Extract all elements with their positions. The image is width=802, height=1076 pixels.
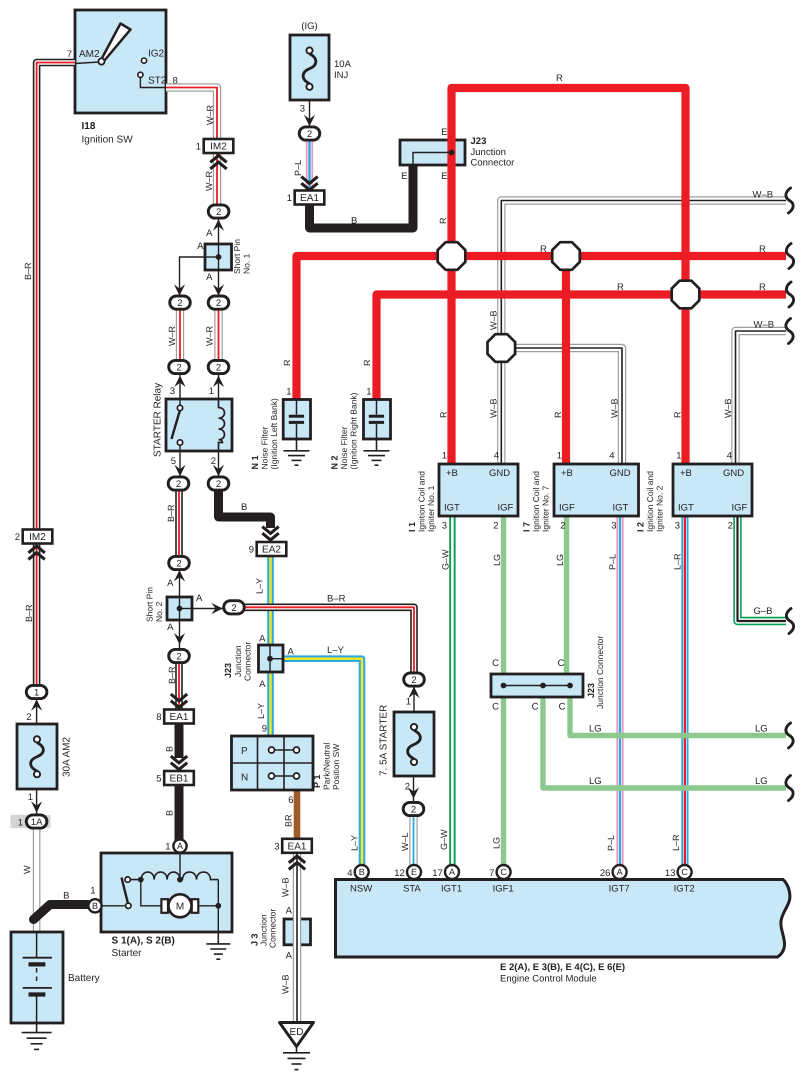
wire LG J23 right upper	[570, 697, 786, 736]
svg-text:1: 1	[28, 792, 33, 803]
svg-text:R: R	[362, 359, 372, 366]
svg-text:A: A	[197, 241, 204, 252]
connector AM2 fuse in	[26, 685, 47, 698]
svg-text:L–Y: L–Y	[350, 835, 360, 851]
svg-text:Park/Neutral: Park/Neutral	[322, 743, 332, 790]
svg-text:A: A	[617, 867, 623, 877]
connector starter fuse in	[404, 673, 425, 686]
svg-text:Igniter No. 1: Igniter No. 1	[426, 485, 436, 532]
svg-text:IGT7: IGT7	[609, 884, 630, 895]
svg-text:C: C	[492, 702, 499, 713]
svg-text:2: 2	[216, 207, 221, 218]
arrow relay out 2	[213, 465, 224, 477]
wire LG I7 IGF to J23	[564, 516, 569, 674]
pin ECM STA	[407, 865, 421, 879]
lead shortpin1 bottom	[218, 257, 220, 296]
svg-text:R: R	[540, 244, 547, 255]
svg-text:G–W: G–W	[441, 549, 451, 570]
lead relay pin2	[218, 451, 220, 477]
wire B-R shortpin2 to EA1	[175, 662, 183, 711]
svg-text:W–B: W–B	[281, 974, 291, 994]
svg-text:Ignition Coil and: Ignition Coil and	[531, 471, 541, 532]
wire BR P1 to EA1	[294, 790, 301, 839]
svg-text:IGT2: IGT2	[674, 884, 695, 895]
J23 coil inner lead	[504, 685, 571, 687]
connector relay out right	[208, 477, 229, 490]
svg-text:I 1: I 1	[407, 522, 417, 532]
connector EA1 pin8	[156, 710, 194, 724]
lead shortpin1 left	[180, 257, 219, 296]
lead relay pin3	[179, 374, 181, 399]
svg-text:2: 2	[411, 805, 416, 816]
ground starter	[206, 932, 230, 959]
chevron into EB1	[171, 756, 187, 769]
connector relay in right	[208, 360, 229, 373]
relay switch	[172, 399, 183, 451]
starter inner leads	[141, 880, 219, 932]
svg-text:Noise Filter: Noise Filter	[260, 426, 270, 469]
svg-text:2: 2	[177, 298, 182, 309]
svg-text:8: 8	[156, 712, 161, 723]
ground N1	[284, 439, 310, 465]
svg-text:IG2: IG2	[148, 49, 165, 60]
arrow into relay 3	[174, 376, 185, 388]
svg-text:Ignition Coil and: Ignition Coil and	[417, 471, 427, 532]
svg-text:EA1: EA1	[170, 712, 189, 723]
connector EA1 pin1	[287, 191, 325, 205]
wire B-R ignition to IM2	[37, 63, 75, 531]
wire LG J23 to IGF1	[501, 697, 506, 865]
svg-text:17: 17	[432, 868, 443, 879]
svg-text:W–B: W–B	[489, 310, 499, 330]
svg-text:3: 3	[300, 104, 305, 115]
starter motor	[161, 894, 198, 917]
J23 top inner link	[413, 153, 452, 166]
ground point ED	[280, 1023, 314, 1047]
svg-text:AM2: AM2	[79, 49, 100, 60]
wire R to I1 +B	[447, 138, 455, 464]
svg-text:B–R: B–R	[24, 604, 34, 622]
connector EA1 pin3	[274, 839, 312, 853]
svg-text:B–R: B–R	[327, 594, 346, 605]
svg-text:IGF1: IGF1	[493, 884, 514, 895]
svg-text:E: E	[441, 171, 447, 182]
svg-text:C: C	[681, 867, 688, 877]
svg-text:W–R: W–R	[167, 326, 177, 347]
svg-text:+B: +B	[680, 468, 692, 479]
wire L-Y J23 to NSW	[283, 659, 362, 865]
svg-text:P: P	[241, 746, 248, 757]
svg-text:9: 9	[262, 724, 267, 735]
svg-text:LG: LG	[589, 776, 602, 787]
svg-text:2: 2	[307, 129, 312, 140]
svg-text:LG: LG	[755, 724, 768, 735]
junction dot J23 coil dot C	[567, 683, 573, 689]
svg-text:A: A	[286, 951, 293, 962]
pin ECM IGF1	[497, 865, 511, 879]
connector right branch	[208, 296, 229, 309]
svg-text:Short Pin: Short Pin	[145, 587, 155, 622]
svg-text:1: 1	[442, 451, 447, 462]
pin ECM IGT2	[678, 865, 692, 879]
junction dot J23 coil dot A	[501, 683, 507, 689]
svg-text:2: 2	[211, 456, 216, 467]
svg-text:LG: LG	[555, 554, 565, 566]
break W-B break 2	[786, 319, 793, 344]
ignition coil I7 body	[554, 464, 639, 516]
svg-text:E: E	[411, 867, 417, 877]
svg-text:IGF: IGF	[498, 503, 514, 514]
svg-text:IGT1: IGT1	[441, 884, 462, 895]
connector W-R junction	[208, 205, 229, 218]
break W-B break	[786, 188, 793, 213]
svg-text:LG: LG	[492, 837, 502, 849]
svg-text:E: E	[441, 127, 447, 138]
junction W-B junction	[488, 334, 516, 362]
svg-text:EA2: EA2	[262, 545, 281, 556]
svg-text:LG: LG	[755, 776, 768, 787]
svg-text:P–L: P–L	[606, 835, 616, 851]
svg-text:3: 3	[442, 521, 447, 532]
svg-text:GND: GND	[723, 468, 744, 479]
svg-text:4: 4	[347, 868, 352, 879]
wire W-B EA1-3 to ED	[293, 853, 301, 1023]
svg-text:2: 2	[216, 479, 221, 490]
arrow into oval shortpin2	[174, 570, 185, 582]
svg-text:W–R: W–R	[204, 171, 214, 192]
svg-text:EA1: EA1	[288, 841, 307, 852]
J23 mid inner leads	[270, 645, 283, 672]
svg-text:I18: I18	[82, 121, 96, 132]
wire L-Y J23 to P1	[267, 672, 274, 736]
wire G-W I1 IGT to ECM	[449, 516, 455, 865]
svg-text:A: A	[206, 272, 213, 283]
svg-text:A: A	[196, 593, 203, 604]
relay coil	[219, 399, 225, 451]
junction dot J23 coil dot B	[540, 683, 546, 689]
svg-text:Position SW: Position SW	[331, 744, 341, 790]
svg-text:2: 2	[405, 782, 410, 793]
lead shortpin2 top	[179, 570, 181, 609]
fuse 7.5A STARTER	[394, 712, 434, 776]
lead shortpin1 top	[218, 219, 220, 257]
P1 P contact	[269, 747, 300, 753]
svg-text:R: R	[439, 411, 449, 418]
I18 AM2 contact wire	[75, 62, 99, 64]
svg-text:A: A	[177, 841, 183, 851]
svg-text:Junction Connector: Junction Connector	[595, 636, 605, 709]
svg-text:2: 2	[26, 712, 31, 723]
svg-text:N 1: N 1	[250, 455, 260, 469]
arrow to oval INJ	[304, 115, 315, 127]
svg-text:EA1: EA1	[300, 193, 319, 204]
svg-text:2: 2	[176, 559, 181, 570]
arrow starter fuse out	[408, 787, 419, 799]
svg-text:G–B: G–B	[754, 606, 773, 617]
svg-text:W–R: W–R	[205, 105, 215, 126]
junction connector J3 body	[284, 919, 311, 945]
short pin No.2 body	[167, 597, 192, 620]
wire B EA1-8 to EB1	[175, 722, 184, 758]
svg-text:A: A	[286, 906, 293, 917]
connector EB1 pin5	[156, 771, 194, 785]
connector relay in left	[169, 360, 190, 373]
junction R junction B	[552, 242, 580, 270]
junction connector J23 mid body	[259, 645, 284, 672]
svg-text:1: 1	[406, 697, 411, 708]
svg-text:1: 1	[286, 387, 291, 398]
svg-text:B: B	[165, 810, 175, 816]
svg-text:1: 1	[557, 451, 562, 462]
svg-text:B: B	[165, 746, 175, 752]
svg-text:1: 1	[196, 142, 201, 153]
svg-text:EB1: EB1	[170, 774, 189, 785]
svg-text:2: 2	[411, 675, 416, 686]
svg-text:4: 4	[494, 451, 499, 462]
shortpin1 inner leads	[205, 244, 219, 270]
ignition coil I1 body	[439, 464, 518, 516]
pin ECM IGT1	[445, 865, 459, 879]
wire W-B branch to I7 GND	[501, 348, 622, 464]
wire W-R ST2 to IM2	[166, 88, 217, 141]
svg-text:A: A	[259, 634, 266, 645]
svg-text:B: B	[63, 891, 69, 902]
I18 ST2 pin8 wire	[140, 77, 166, 87]
svg-text:R: R	[438, 217, 448, 224]
svg-text:LG: LG	[589, 724, 602, 735]
svg-text:P 1: P 1	[312, 775, 322, 788]
wire P-L I7 IGT to ECM	[616, 516, 623, 865]
arrow shortpin2 right out	[211, 603, 223, 614]
wire W-B right to I2 GND	[736, 331, 787, 464]
lead STARTER fuse bottom	[413, 776, 415, 803]
svg-text:C: C	[532, 702, 539, 713]
svg-text:+B: +B	[446, 468, 458, 479]
arrow shortpin1 left out	[174, 284, 185, 296]
svg-text:5: 5	[171, 456, 176, 467]
svg-text:G–W: G–W	[439, 829, 449, 850]
svg-text:B: B	[359, 867, 365, 877]
break R break 2	[786, 282, 793, 307]
svg-text:ED: ED	[290, 1027, 304, 1038]
svg-text:Junction: Junction	[233, 645, 243, 677]
svg-text:R: R	[673, 411, 683, 418]
svg-text:M: M	[176, 902, 184, 913]
svg-text:30A AM2: 30A AM2	[62, 737, 73, 777]
wire B EA1 to J23 top	[310, 165, 414, 228]
svg-text:I 7: I 7	[522, 522, 532, 532]
N2 capacitor	[369, 400, 384, 440]
svg-text:1: 1	[287, 193, 292, 204]
svg-text:2: 2	[231, 603, 236, 614]
svg-text:Battery: Battery	[68, 973, 100, 984]
svg-text:10A: 10A	[334, 59, 352, 70]
svg-text:W: W	[22, 865, 32, 874]
svg-text:B: B	[241, 502, 247, 513]
junction dot starter dot 2	[177, 877, 183, 883]
I18 ST2 contact	[138, 72, 143, 77]
starter pinB lead	[101, 905, 126, 907]
short pin No.1 body	[205, 244, 232, 270]
connector shortpin2 right oval	[224, 601, 245, 614]
engine control module body	[336, 880, 790, 958]
wire W 1A to battery	[33, 828, 41, 932]
svg-text:L–R: L–R	[673, 553, 683, 570]
I18 IG2 contact	[141, 58, 146, 63]
wire LG I1 IGF to J23	[501, 516, 506, 674]
lead relay pin1	[218, 374, 220, 399]
svg-text:2: 2	[728, 521, 733, 532]
svg-text:12: 12	[394, 868, 405, 879]
svg-text:J23: J23	[471, 136, 487, 147]
chevron into EA1-1	[301, 177, 317, 190]
svg-text:ST2: ST2	[148, 76, 167, 87]
svg-text:R: R	[617, 282, 624, 293]
svg-text:(Ignition Left Bank): (Ignition Left Bank)	[269, 398, 279, 470]
svg-text:Connector: Connector	[268, 909, 278, 948]
svg-text:(Ignition Right Bank): (Ignition Right Bank)	[349, 392, 359, 469]
wire R to I2 +B	[681, 294, 689, 464]
arrow into oval AM2	[31, 699, 42, 711]
svg-text:2: 2	[493, 521, 498, 532]
wire R bus y294 to N2	[377, 295, 787, 402]
key symbol in I18	[98, 24, 130, 65]
ground battery	[22, 1023, 52, 1049]
arrow AM2 fuse out	[31, 801, 42, 813]
junction connector J23 coil body	[491, 674, 583, 697]
svg-text:N: N	[241, 773, 248, 784]
fuse 30A AM2	[17, 724, 57, 789]
svg-text:1: 1	[165, 842, 170, 853]
lead INJ fuse bottom	[309, 100, 311, 127]
svg-text:4: 4	[609, 451, 614, 462]
svg-text:Ignition Coil and: Ignition Coil and	[645, 471, 655, 532]
svg-text:R: R	[556, 73, 563, 84]
svg-text:No. 2: No. 2	[154, 601, 164, 622]
svg-text:GND: GND	[489, 468, 510, 479]
N1 capacitor	[289, 400, 304, 440]
svg-text:26: 26	[600, 868, 611, 879]
connector left branch	[170, 296, 191, 309]
svg-text:E 2(A), E 3(B), E 4(C), E 6(E): E 2(A), E 3(B), E 4(C), E 6(E)	[500, 962, 625, 973]
svg-text:R: R	[759, 282, 766, 293]
svg-text:2: 2	[176, 652, 181, 663]
junction R junction C	[672, 281, 700, 309]
svg-text:A: A	[206, 228, 213, 239]
svg-text:7: 7	[67, 49, 72, 60]
svg-text:13: 13	[665, 868, 676, 879]
svg-text:7. 5A STARTER: 7. 5A STARTER	[379, 705, 390, 776]
svg-text:IGT: IGT	[613, 503, 629, 514]
svg-text:1: 1	[676, 451, 681, 462]
chevron into EA1-8	[171, 694, 187, 707]
svg-text:C: C	[492, 658, 499, 669]
svg-text:L–Y: L–Y	[327, 645, 345, 656]
connector relay out left	[168, 477, 189, 490]
starter relay body	[166, 399, 232, 451]
junction dot J23 mid	[267, 656, 273, 662]
svg-text:6: 6	[288, 795, 293, 806]
starter body	[101, 853, 232, 932]
svg-text:IM2: IM2	[210, 142, 227, 153]
svg-text:Igniter No. 2: Igniter No. 2	[655, 485, 665, 532]
junction dot short pin No.2	[177, 606, 183, 612]
P1 cell dividers	[232, 736, 314, 790]
break LG break 1	[786, 723, 793, 748]
arrow shortpin2 down out	[174, 633, 185, 645]
svg-text:W–B: W–B	[723, 398, 733, 418]
svg-text:A: A	[167, 578, 174, 589]
svg-text:3: 3	[611, 521, 616, 532]
svg-text:Ignition SW: Ignition SW	[82, 135, 134, 146]
svg-text:IGT: IGT	[444, 503, 460, 514]
break R break 1	[786, 244, 793, 269]
lead AM2 fuse bottom	[36, 789, 38, 814]
shortpin2 inner leads	[180, 597, 193, 620]
svg-text:W–L: W–L	[400, 832, 410, 851]
svg-text:S 1(A), S 2(B): S 1(A), S 2(B)	[112, 936, 175, 947]
battery body	[11, 932, 63, 1023]
chevron into EA1-3	[289, 856, 305, 869]
svg-text:(IG): (IG)	[301, 21, 317, 32]
svg-text:Short Pin: Short Pin	[232, 239, 242, 274]
pin starter B	[88, 899, 101, 912]
svg-text:L–R: L–R	[671, 834, 681, 851]
wire B-R IM2 to fuse oval	[33, 544, 41, 686]
svg-text:W–B: W–B	[754, 320, 775, 331]
svg-text:Engine Control Module: Engine Control Module	[500, 974, 597, 985]
ground ED	[283, 1047, 310, 1070]
pin starter A	[173, 839, 186, 852]
chevron into IM2-1	[210, 156, 226, 169]
svg-text:B: B	[92, 901, 98, 911]
svg-text:P–L: P–L	[608, 554, 618, 570]
wire B battery to starter	[34, 905, 89, 920]
svg-text:+B: +B	[561, 468, 573, 479]
lead shortpin2 bottom	[179, 609, 181, 651]
starter coil 1	[131, 872, 181, 880]
pin ECM IGT7	[613, 865, 627, 879]
wire R bus y256 to N1	[297, 256, 787, 401]
svg-text:C: C	[500, 867, 507, 877]
svg-text:3: 3	[274, 841, 279, 852]
connector starter fuse out	[403, 802, 424, 815]
svg-text:A: A	[449, 867, 455, 877]
svg-text:1A: 1A	[31, 817, 43, 828]
wire L-R I2 IGT to ECM	[681, 516, 688, 865]
park neutral switch P1 body	[232, 736, 314, 790]
svg-text:5: 5	[156, 774, 161, 785]
svg-text:1: 1	[366, 387, 371, 398]
ground N2	[364, 439, 390, 465]
junction dot starter dot 1	[138, 877, 144, 883]
svg-text:Starter: Starter	[112, 948, 143, 959]
wire W-R branch right	[214, 308, 222, 361]
svg-text:IM2: IM2	[29, 532, 46, 543]
svg-text:2: 2	[176, 363, 181, 374]
ignition coil I2 body	[673, 464, 752, 516]
svg-text:STA: STA	[403, 884, 421, 895]
lead relay pin5	[179, 451, 181, 477]
svg-text:E: E	[401, 171, 407, 182]
svg-text:1: 1	[34, 688, 39, 699]
wire W-B ECM branch and I1 GND	[501, 201, 786, 465]
svg-text:Connector: Connector	[471, 158, 515, 169]
arrow shortpin1 down out	[213, 284, 224, 296]
lead shortpin2 right	[180, 608, 223, 610]
connector IM2 pin2	[15, 530, 53, 544]
arrow into relay 1	[213, 376, 224, 388]
